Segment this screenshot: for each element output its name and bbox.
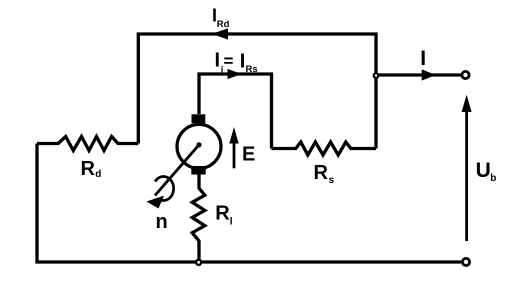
svg-text:d: d [95, 169, 101, 180]
svg-text:E: E [242, 144, 255, 166]
svg-text:Rd: Rd [217, 19, 230, 30]
svg-text:I: I [215, 50, 221, 72]
svg-text:Rs: Rs [246, 64, 258, 75]
svg-text:I: I [420, 47, 426, 70]
svg-text:b: b [490, 173, 496, 184]
svg-text:=: = [224, 52, 234, 71]
svg-text:R: R [81, 158, 96, 180]
svg-text:l: l [230, 216, 233, 227]
svg-text:I: I [240, 51, 246, 73]
svg-text:R: R [215, 203, 230, 225]
svg-text:s: s [329, 175, 335, 186]
svg-text:R: R [314, 162, 329, 184]
svg-text:n: n [156, 211, 168, 233]
svg-text:U: U [476, 159, 491, 182]
